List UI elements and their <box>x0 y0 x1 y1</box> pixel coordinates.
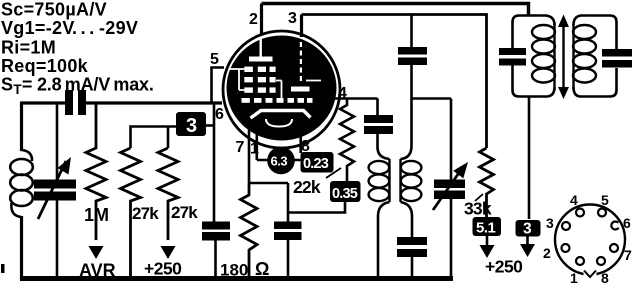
box value 3 <box>176 112 206 136</box>
ground bus wire <box>20 276 453 281</box>
svg-text:1: 1 <box>570 270 578 284</box>
inductor L5 IF secondary <box>572 24 574 89</box>
capacitor C3 screen bypass <box>410 15 413 48</box>
svg-text:3: 3 <box>523 221 532 238</box>
resistor R3 27k <box>158 148 178 240</box>
svg-text:0.23: 0.23 <box>303 156 329 172</box>
socket pin 8 <box>597 257 605 265</box>
socket pin 3 <box>562 222 570 230</box>
grid side connector <box>230 69 245 90</box>
box value 0.23 <box>301 152 334 173</box>
svg-text:0.35: 0.35 <box>332 186 358 202</box>
svg-text:2: 2 <box>543 245 551 261</box>
resistor R4 22k <box>340 99 354 182</box>
resistor R5 180ohm <box>241 183 258 278</box>
pin 4 lead <box>334 97 378 100</box>
svg-text:8: 8 <box>601 270 609 284</box>
tube U1 envelope <box>223 31 340 148</box>
variable capacitor VC2 osc tuning <box>450 99 453 279</box>
capacitor C7 <box>499 48 526 55</box>
svg-text:Vg1=-2V...-29V: Vg1=-2V...-29V <box>1 18 138 38</box>
svg-text:1: 1 <box>250 141 259 158</box>
svg-text:7: 7 <box>236 139 245 156</box>
wire AGC vertical <box>213 102 216 222</box>
svg-text:4: 4 <box>570 192 578 208</box>
svg-text:2: 2 <box>249 11 258 28</box>
socket pin 1 <box>576 257 584 265</box>
svg-text:3: 3 <box>288 10 297 27</box>
socket pin 2 <box>562 244 570 252</box>
svg-text:+250: +250 <box>144 259 182 279</box>
wire osc node <box>412 97 452 100</box>
svg-text:5: 5 <box>601 192 609 208</box>
inductor L3 osc secondary <box>399 159 401 202</box>
wire grid bus right segment <box>86 101 222 104</box>
variable capacitor VC1 tuning <box>34 180 76 189</box>
wire cathode junction <box>249 183 288 222</box>
anode bar A2 <box>291 87 310 92</box>
IF transformer T1 secondary frame <box>574 16 617 97</box>
box value 0.35 <box>330 181 361 202</box>
capacitor C2 decoupling <box>202 222 230 230</box>
svg-text:3: 3 <box>186 115 197 137</box>
wire cathode link <box>288 202 345 213</box>
socket labels <box>543 192 632 284</box>
inductor L1 antenna coil <box>22 150 33 161</box>
wire left vertical top <box>20 102 23 152</box>
cathode <box>251 111 311 119</box>
anode bar A1 <box>249 57 273 62</box>
capacitor C5 osc grid <box>376 99 379 116</box>
svg-text:5: 5 <box>210 51 219 68</box>
resistor R6 33k <box>480 148 494 219</box>
inductor L2 osc primary <box>388 159 390 202</box>
pin 3 lead <box>300 15 303 38</box>
svg-text:Ri=1M: Ri=1M <box>1 38 56 58</box>
socket pin 7 <box>610 244 618 252</box>
svg-text:33k: 33k <box>464 199 492 219</box>
capacitor C6 osc padder <box>397 237 427 245</box>
pin 5 wire <box>212 68 225 103</box>
pin 2 lead <box>260 4 263 36</box>
heater <box>266 119 292 127</box>
svg-text:4: 4 <box>338 85 347 102</box>
grid dashes g1-g3 <box>242 67 313 103</box>
value label spec text block <box>1 0 154 97</box>
svg-text:ST= 2.8 mA/V max.: ST= 2.8 mA/V max. <box>1 75 154 98</box>
pin 7 lead <box>248 130 251 183</box>
grid dashes g4 wide row <box>242 98 250 103</box>
svg-text:6: 6 <box>623 215 631 231</box>
resistor R2 27k <box>121 148 141 279</box>
pin 1 lead <box>255 132 258 160</box>
capacitor C8 <box>602 49 632 57</box>
svg-text:5.1: 5.1 <box>476 220 496 237</box>
socket keyway notch <box>584 268 597 277</box>
socket pin 6 <box>611 221 618 229</box>
resistor R1 1M <box>86 103 106 240</box>
svg-text:22k: 22k <box>293 177 321 197</box>
tube U1 electrode assembly <box>227 36 337 141</box>
tube socket base view <box>555 205 625 275</box>
inductor L4 IF primary <box>553 24 555 89</box>
tuning arrow <box>562 24 564 92</box>
wire 27k top bus <box>131 127 177 149</box>
svg-text:Sc=750µA/V: Sc=750µA/V <box>1 0 107 20</box>
svg-text:3: 3 <box>546 215 554 231</box>
svg-text:6: 6 <box>215 106 224 123</box>
svg-text:27k: 27k <box>132 204 159 223</box>
IF transformer T1 primary frame <box>513 16 555 97</box>
heater value 6.3 <box>257 159 302 161</box>
wire grid bus left segment <box>22 101 66 104</box>
capacitor C4 cathode bypass <box>274 222 302 230</box>
svg-text:+250: +250 <box>485 257 523 277</box>
wire top bus 2 (pin3 screen) <box>302 15 487 149</box>
capacitor C1 coupling <box>65 90 73 115</box>
box value 3 <box>516 220 541 237</box>
wire top bus 1 (pin2 to IF transformer) <box>262 4 529 16</box>
pin 3 internal lead dashed <box>300 42 302 84</box>
wire varcap1 vertical <box>56 103 59 278</box>
svg-text:7: 7 <box>624 247 632 263</box>
wire left vertical bottom <box>20 216 23 279</box>
socket pin 5 <box>598 209 606 217</box>
svg-text:Req=100k: Req=100k <box>1 56 89 76</box>
svg-text:27k: 27k <box>171 203 198 222</box>
wire IF primary return <box>528 97 531 220</box>
box value 5.1 <box>473 217 502 236</box>
pin 2 internal lead <box>260 38 262 57</box>
svg-text:6.3: 6.3 <box>271 154 288 169</box>
socket pin 4 <box>576 209 584 217</box>
svg-text:1M: 1M <box>84 205 109 225</box>
pin 8 lead <box>299 130 302 153</box>
